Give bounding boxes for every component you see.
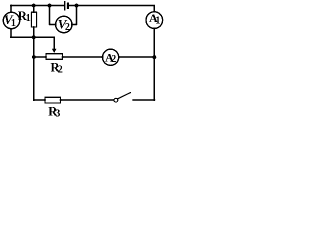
node dot top R1 (32, 4, 36, 8)
svg-text:1: 1 (26, 13, 31, 24)
wire 2 horizontal (11, 36, 54, 38)
battery B short thick plate (67, 3, 69, 9)
switch S pivot (114, 98, 118, 102)
svg-text:2: 2 (65, 22, 70, 33)
node dot top V2-left (48, 4, 52, 8)
ammeter A2 (103, 49, 119, 65)
svg-text:1: 1 (155, 15, 160, 26)
wire R1 bottom lead (33, 27, 35, 37)
resistor R1 box (31, 12, 36, 27)
voltmeter V2 (56, 16, 72, 32)
ammeter A1 (146, 12, 163, 29)
wire 3 left segment (34, 56, 46, 58)
wire R1 top lead (33, 6, 35, 13)
wire top-left segment (11, 5, 64, 7)
wire top-right segment (69, 6, 154, 12)
wire left vertical (33, 37, 35, 100)
rheostat R2 box (46, 54, 63, 60)
wire V1 top lead (10, 6, 12, 13)
wire bottom-left segment (34, 99, 45, 101)
node dot wire3-left (32, 55, 36, 59)
wire R2 slider arm (53, 37, 55, 50)
switch S lever (118, 92, 131, 99)
battery B long plate (64, 1, 66, 11)
svg-text:1: 1 (11, 18, 16, 29)
svg-text:3: 3 (55, 108, 60, 119)
wire right vertical (153, 28, 155, 100)
node dot wire3-right (153, 55, 157, 59)
voltmeter V1 (3, 12, 19, 28)
wire bottom middle segment (61, 99, 114, 101)
wire 3 right segment (119, 56, 155, 58)
node dot top V2-right (75, 4, 79, 8)
rheostat R2 arrowhead (52, 49, 57, 53)
wire 3 middle segment (63, 56, 103, 58)
resistor R3 box (45, 97, 61, 103)
wire V2 loop right (72, 6, 77, 25)
node dot wire2-R1 (32, 35, 36, 39)
wire V1 bottom lead (10, 29, 12, 38)
wire bottom right segment (133, 99, 154, 101)
svg-text:2: 2 (58, 65, 63, 76)
wire V2 loop left (50, 6, 56, 25)
svg-text:2: 2 (111, 54, 116, 65)
